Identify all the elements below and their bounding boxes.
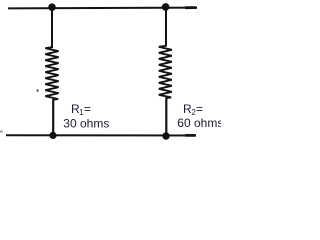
svg-text:60 ohms: 60 ohms xyxy=(177,116,221,130)
svg-text:30 ohms: 30 ohms xyxy=(63,116,109,130)
svg-text:=: = xyxy=(196,102,203,116)
svg-text:=: = xyxy=(84,102,91,116)
